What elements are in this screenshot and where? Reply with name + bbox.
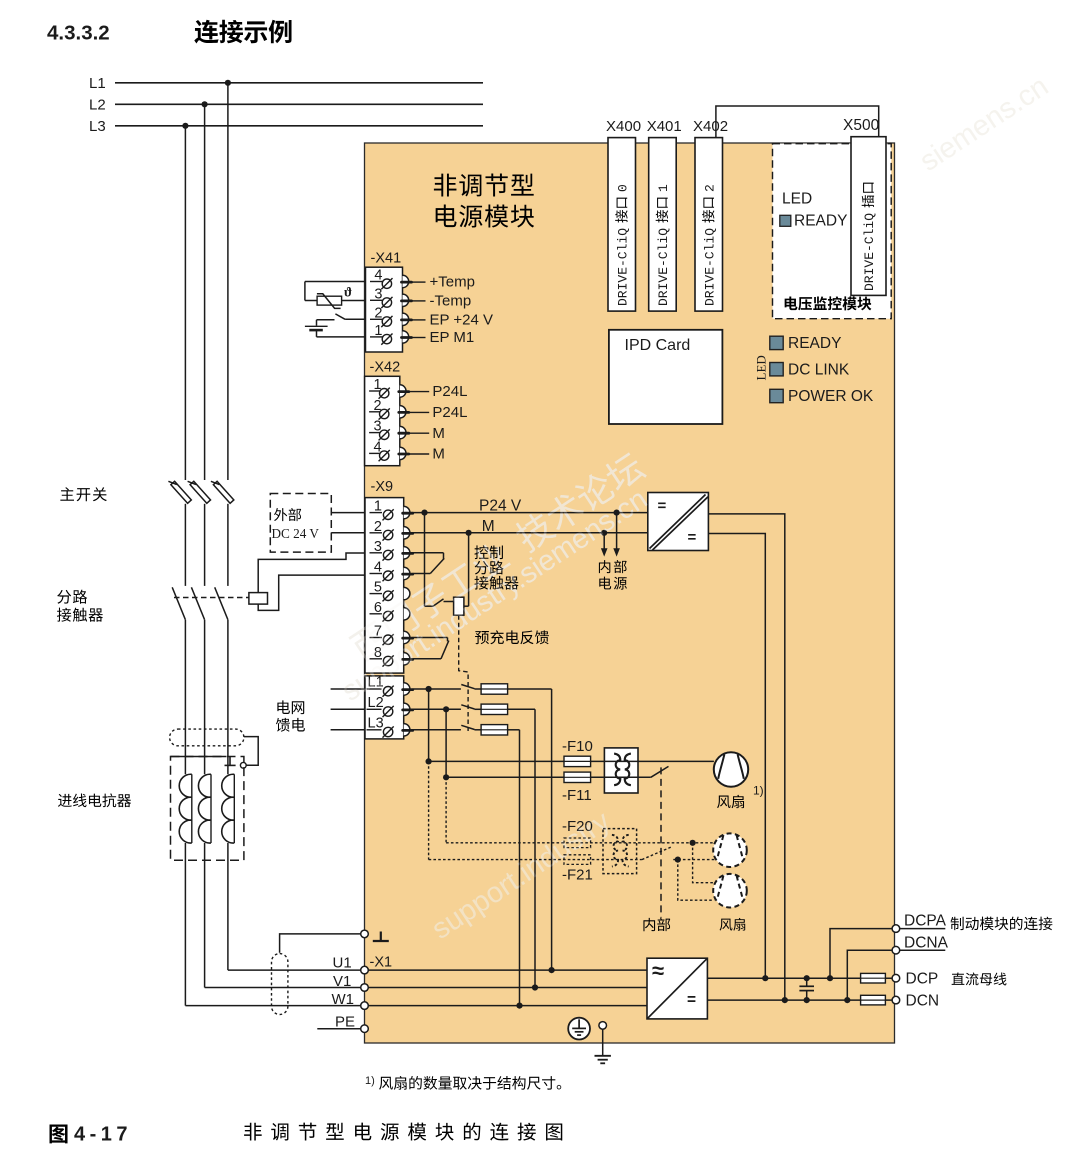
svg-text:=: = [688, 529, 697, 546]
svg-text:ϑ: ϑ [344, 285, 352, 300]
svg-text:DCN: DCN [906, 993, 940, 1010]
svg-text:1): 1) [365, 1075, 375, 1087]
svg-text:1): 1) [753, 784, 764, 798]
svg-text:0: 0 [616, 184, 631, 192]
svg-text:DCNA: DCNA [904, 934, 949, 951]
svg-text:DRIVE-CliQ: DRIVE-CliQ [616, 228, 631, 306]
svg-text:PE: PE [335, 1014, 355, 1031]
svg-text:DRIVE-CliQ: DRIVE-CliQ [656, 228, 671, 306]
svg-text:M: M [482, 518, 495, 535]
svg-text:=: = [687, 992, 696, 1009]
svg-text:P24L: P24L [432, 383, 467, 400]
svg-text:-X9: -X9 [371, 479, 394, 495]
svg-text:2: 2 [702, 184, 717, 192]
svg-text:EP M1: EP M1 [430, 329, 475, 346]
svg-text:P24L: P24L [432, 404, 467, 421]
svg-text:DC 24 V: DC 24 V [272, 526, 320, 541]
svg-text:X400: X400 [606, 118, 641, 135]
svg-text:DCPA: DCPA [904, 913, 947, 930]
svg-text:M: M [432, 446, 445, 463]
svg-text:READY: READY [788, 335, 841, 352]
svg-text:-F11: -F11 [562, 787, 592, 804]
svg-text:LED: LED [754, 355, 769, 380]
svg-text:DRIVE-CliQ: DRIVE-CliQ [702, 228, 717, 306]
svg-text:+Temp: +Temp [430, 274, 475, 291]
svg-text:DRIVE-CliQ: DRIVE-CliQ [862, 213, 877, 291]
svg-text:X500: X500 [843, 117, 880, 134]
svg-text:DCP: DCP [906, 971, 939, 988]
svg-text:M: M [432, 425, 445, 442]
svg-text:L1: L1 [89, 75, 106, 92]
svg-text:=: = [658, 498, 667, 515]
svg-text:U1: U1 [333, 954, 352, 971]
svg-text:≈: ≈ [652, 958, 664, 983]
svg-text:L3: L3 [89, 118, 106, 135]
svg-text:DC LINK: DC LINK [788, 361, 850, 378]
svg-text:4.3.3.2: 4.3.3.2 [47, 22, 110, 45]
svg-text:LED: LED [782, 191, 812, 208]
svg-text:X402: X402 [693, 118, 728, 135]
svg-text:1: 1 [656, 184, 671, 192]
svg-text:V1: V1 [333, 973, 351, 990]
svg-text:-X1: -X1 [370, 955, 393, 971]
svg-text:-X42: -X42 [370, 360, 401, 376]
svg-text:POWER OK: POWER OK [788, 388, 874, 405]
svg-text:X401: X401 [647, 118, 682, 135]
svg-text:-X41: -X41 [371, 251, 402, 267]
svg-text:-Temp: -Temp [430, 293, 472, 310]
svg-text:-F10: -F10 [562, 738, 593, 755]
svg-text:-F21: -F21 [562, 867, 593, 884]
svg-text:READY: READY [794, 212, 847, 229]
svg-text:IPD Card: IPD Card [625, 337, 691, 354]
svg-text:EP +24 V: EP +24 V [430, 312, 494, 329]
svg-text:4-17: 4-17 [74, 1124, 132, 1146]
svg-text:L2: L2 [89, 97, 106, 114]
svg-text:P24 V: P24 V [479, 498, 522, 515]
svg-text:W1: W1 [332, 991, 355, 1008]
